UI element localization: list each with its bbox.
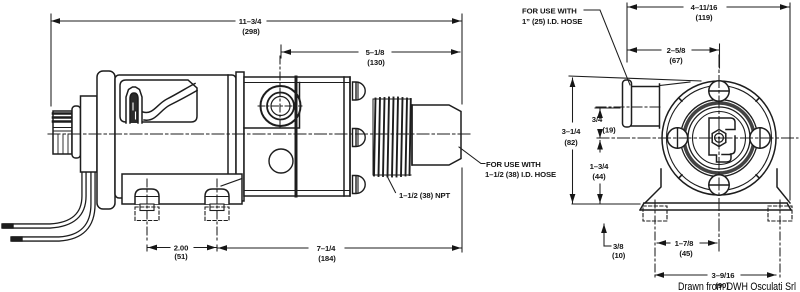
svg-text:1–1/2 (38) I.D. HOSE: 1–1/2 (38) I.D. HOSE bbox=[485, 170, 556, 179]
foot F2 centerline bbox=[216, 179, 218, 243]
dimension 3-9/16 (90) bbox=[655, 274, 707, 276]
wire lead 2 bbox=[14, 148, 93, 239]
leader hose label right view bbox=[584, 10, 630, 85]
inlet port top shoulder bbox=[660, 82, 691, 86]
svg-text:3/4: 3/4 bbox=[592, 115, 603, 124]
impeller cam slot bbox=[709, 118, 735, 162]
housing top extension line bbox=[569, 76, 701, 81]
svg-text:FOR USE WITH: FOR USE WITH bbox=[522, 7, 577, 16]
svg-text:(45): (45) bbox=[679, 249, 693, 258]
dimension 11-3/4 (298) bbox=[51, 14, 462, 106]
housing rib ticks bbox=[680, 99, 759, 177]
port horizontal centerline bbox=[596, 106, 661, 108]
motor-pump flange ring bbox=[236, 72, 244, 201]
bracket side edge left bbox=[645, 169, 661, 203]
port boss pad bbox=[244, 83, 300, 129]
base bottom extension line bbox=[572, 203, 640, 205]
svg-text:(67): (67) bbox=[669, 56, 683, 65]
svg-text:1–1/2 (38) NPT: 1–1/2 (38) NPT bbox=[399, 191, 451, 200]
bracket foot F2 bbox=[205, 189, 229, 204]
wire lead 2 end tip bbox=[13, 236, 20, 241]
bracket side edge right bbox=[777, 169, 790, 203]
dimension 5-1/8 (130) bbox=[280, 45, 282, 58]
pump body inner wall lines bbox=[244, 83, 350, 191]
motor rear plate bbox=[81, 96, 98, 172]
svg-text:(51): (51) bbox=[174, 252, 188, 261]
svg-text:(19): (19) bbox=[602, 126, 616, 135]
NPT thread section outline bbox=[373, 99, 411, 175]
svg-text:FOR USE WITH: FOR USE WITH bbox=[486, 160, 541, 169]
svg-text:4–11/16: 4–11/16 bbox=[691, 3, 718, 12]
pump housing outer circles bbox=[662, 81, 776, 195]
base hidden bolt slot left bbox=[643, 206, 667, 221]
port vertical centerline bbox=[279, 56, 281, 130]
leader hose label left view bbox=[459, 147, 485, 164]
dimension 7-1/4 (184) bbox=[461, 168, 463, 252]
svg-text:1–3/4: 1–3/4 bbox=[590, 162, 610, 171]
wire lead 1 bbox=[5, 140, 84, 226]
cover bolt B2 bbox=[353, 129, 366, 147]
pump horizontal centerline bbox=[597, 137, 798, 139]
side drain circle bbox=[269, 149, 293, 173]
bracket foot F1 bbox=[135, 189, 159, 204]
dimension 3/4 (19) bbox=[595, 107, 620, 109]
assembly centerline bbox=[48, 133, 470, 135]
svg-text:Drawn from DWH Osculati Srl: Drawn from DWH Osculati Srl bbox=[678, 281, 796, 292]
pump body bbox=[244, 77, 350, 196]
cover screw bottom bbox=[709, 175, 729, 195]
svg-text:2–5/8: 2–5/8 bbox=[667, 46, 687, 55]
inlet port boss edge bbox=[659, 84, 661, 128]
dimension 3-1/4 (82) bbox=[572, 78, 574, 122]
svg-text:(44): (44) bbox=[592, 172, 606, 181]
svg-text:7–1/4: 7–1/4 bbox=[317, 244, 337, 253]
foot centerline left bbox=[654, 200, 656, 280]
cover bolt B3 bbox=[353, 176, 366, 194]
pump vertical centerline bbox=[718, 55, 720, 251]
svg-text:3–1/4: 3–1/4 bbox=[562, 127, 582, 136]
svg-text:3–9/16: 3–9/16 bbox=[712, 271, 735, 280]
brush access window bbox=[120, 80, 197, 122]
shaft hex nut bbox=[712, 130, 726, 147]
leader NPT label bbox=[387, 176, 396, 193]
svg-text:(82): (82) bbox=[564, 138, 578, 147]
inlet port end cap bbox=[623, 80, 632, 127]
svg-text:5–1/8: 5–1/8 bbox=[366, 48, 386, 57]
cable gland knurled nut bbox=[53, 111, 72, 154]
base plate bbox=[640, 203, 791, 210]
bracket foot F2 hidden slot bbox=[205, 207, 229, 221]
barb junction line bbox=[411, 105, 413, 165]
NPT threads bbox=[374, 98, 411, 177]
dimension 3/8 (10) bbox=[603, 224, 605, 246]
dimension 4-11/16 (119) bbox=[627, 3, 790, 200]
mounting bracket bbox=[122, 174, 242, 204]
pump end flange bbox=[344, 77, 350, 196]
gland cap ring bbox=[72, 106, 81, 158]
inlet port barrel bbox=[632, 87, 660, 127]
brush pigtail wires bbox=[143, 84, 195, 113]
svg-text:(10): (10) bbox=[612, 251, 626, 260]
foot centerline right bbox=[779, 200, 781, 280]
svg-text:1” (25) I.D. HOSE: 1” (25) I.D. HOSE bbox=[522, 17, 582, 26]
dimension 1-3/4 (44) bbox=[599, 141, 601, 153]
hose barb outlet bbox=[412, 105, 461, 165]
svg-text:(298): (298) bbox=[242, 27, 260, 36]
cover screw top bbox=[709, 81, 729, 101]
bracket gusset line bbox=[221, 179, 242, 187]
top port boss circle bbox=[261, 86, 301, 126]
base hidden bolt slot right bbox=[768, 206, 792, 221]
svg-text:(184): (184) bbox=[318, 254, 336, 263]
svg-text:(130): (130) bbox=[367, 58, 385, 67]
wire lead 1 end tip bbox=[4, 223, 11, 228]
svg-text:1–7/8: 1–7/8 bbox=[675, 239, 695, 248]
cover screw left bbox=[667, 128, 687, 148]
dimension 2.00 (51) bbox=[147, 245, 217, 251]
dimension 1-7/8 (45) bbox=[657, 242, 670, 244]
dimension 2-5/8 (67) bbox=[719, 44, 721, 68]
pump body seam bbox=[295, 77, 298, 196]
cover screw right bbox=[750, 128, 770, 148]
port crosshair bbox=[258, 105, 302, 107]
svg-text:11–3/4: 11–3/4 bbox=[239, 17, 262, 26]
cover bolt B1 bbox=[353, 82, 366, 100]
motor body bbox=[115, 75, 236, 198]
cover knurled ring bbox=[684, 103, 754, 173]
foot F1 centerline bbox=[146, 179, 148, 243]
motor rear housing bbox=[97, 71, 115, 209]
svg-text:(119): (119) bbox=[695, 13, 713, 22]
svg-text:3/8: 3/8 bbox=[613, 242, 624, 251]
bracket foot F1 hidden slot bbox=[135, 207, 159, 221]
brush holder Q1 bbox=[126, 87, 142, 123]
cover plate circle bbox=[681, 100, 758, 177]
